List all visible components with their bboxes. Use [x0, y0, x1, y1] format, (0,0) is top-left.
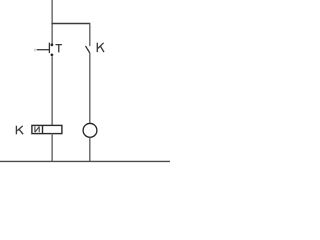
pushbutton T lower terminal dot — [51, 53, 54, 56]
wire: left vertical middle segment — [51, 56, 53, 125]
pushbutton T actuator end cap — [34, 49, 36, 52]
pushbutton T contact bridge bar — [48, 43, 50, 54]
wire: right vertical middle segment — [89, 53, 91, 123]
wire: right vertical upper stub — [89, 24, 91, 47]
relay coil K divider — [42, 125, 44, 133]
label T — [56, 44, 62, 52]
lamp circle — [83, 123, 97, 137]
wire: left vertical lower segment — [51, 134, 53, 162]
pushbutton T actuator link — [37, 49, 50, 51]
relay coil K marking squiggle — [35, 126, 39, 132]
wire: right vertical lower segment — [89, 138, 91, 162]
pushbutton T upper terminal dot — [51, 44, 54, 47]
wire: top horizontal branch — [52, 23, 91, 25]
wire: left vertical supply top segment — [51, 0, 53, 44]
label K contact — [97, 43, 104, 52]
relay coil K outer box — [32, 125, 62, 133]
wire: bottom bus — [0, 160, 170, 162]
contact K moving contact diagonal — [86, 46, 90, 53]
label K coil — [16, 126, 23, 135]
